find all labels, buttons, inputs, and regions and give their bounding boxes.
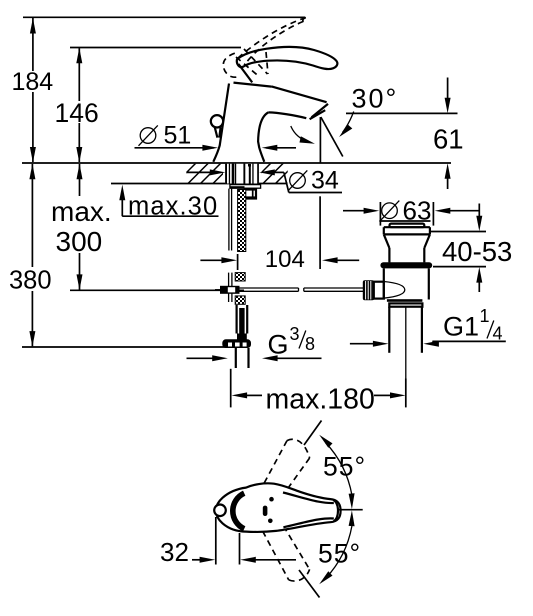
inner top line [283, 493, 334, 504]
wire: deck bottom line [111, 183, 288, 185]
pop-up horizontal rod [240, 288, 365, 291]
svg-text:8: 8 [305, 334, 315, 354]
dimension Ø51 [135, 122, 297, 151]
braided supply hose [238, 190, 246, 252]
dimension 30deg [291, 84, 399, 163]
dimension 146 [55, 48, 99, 163]
svg-text:32: 32 [160, 537, 189, 567]
svg-text:184: 184 [12, 68, 54, 96]
wire: max300 bottom line [70, 289, 244, 291]
aerator bar [310, 110, 326, 119]
spout vertical construction line [319, 117, 321, 163]
dimension 184 [12, 18, 54, 163]
svg-text:55°: 55° [318, 538, 361, 568]
svg-text:34: 34 [311, 167, 339, 195]
svg-text:61: 61 [433, 124, 464, 155]
30 deg slanted construction line [321, 117, 343, 157]
svg-text:3: 3 [290, 324, 300, 344]
side port [374, 282, 384, 299]
wire: spout height line (61 top) [346, 112, 458, 114]
spout end face [312, 104, 329, 117]
dimension max.180 [231, 369, 406, 416]
svg-text:G: G [268, 330, 289, 360]
G3/8 nipple [236, 348, 249, 368]
svg-text:30°: 30° [352, 84, 399, 114]
dimension G1 1/4 [350, 306, 506, 347]
faucet body outline [213, 83, 328, 162]
braided hose lower pieces [235, 273, 245, 281]
handle plan outer outline [216, 483, 341, 532]
valve flange [384, 227, 430, 248]
dimension 104 [200, 196, 359, 273]
104 left tick [237, 254, 239, 270]
black dots [269, 497, 274, 502]
supply hose bottom tube [237, 305, 248, 340]
valve cap plate [390, 224, 425, 228]
104 right extension line [319, 196, 321, 269]
upper 55 arc arrow [319, 435, 354, 510]
pop-up lever cross fitting [215, 286, 240, 294]
handle centerline [337, 509, 363, 511]
inner bottom line [283, 518, 333, 527]
svg-text:104: 104 [265, 246, 305, 273]
svg-text:300: 300 [56, 226, 103, 257]
wire: 146 top extension line [70, 47, 241, 49]
right arc arrow [343, 112, 354, 133]
svg-text:55°: 55° [323, 452, 366, 482]
valve bottom joint [387, 299, 423, 302]
mounting shank [225, 164, 259, 184]
knurled adjuster knob [363, 280, 374, 300]
valve upper tube [389, 248, 424, 262]
body top edge [234, 83, 272, 87]
valve body [384, 268, 429, 299]
dimension Ø34 [186, 167, 342, 195]
dimension 40-53 [429, 204, 512, 293]
svg-text:max.: max. [51, 196, 112, 227]
dimension max.300 [51, 164, 112, 290]
left arc arrow [291, 126, 309, 142]
svg-text:146: 146 [55, 98, 99, 128]
svg-text:380: 380 [9, 266, 52, 294]
55deg leg line upper [304, 421, 322, 446]
logo mark [263, 506, 268, 516]
55deg leg line lower [299, 570, 320, 598]
deck hatching [175, 163, 309, 184]
dimension Ø63 [343, 196, 479, 226]
pop-up knob on body [211, 115, 223, 138]
wire: deck top surface line [22, 162, 451, 164]
pop-up rod lower [229, 273, 232, 302]
svg-text:1: 1 [480, 306, 490, 326]
dimension G3/8 [187, 324, 322, 361]
pop-up rod tube (thin) [229, 189, 232, 251]
G3/8 nut [222, 339, 251, 348]
wire: 380 bottom line [22, 346, 230, 348]
wire: top extension line (184 top) [23, 16, 305, 18]
lever handle (solid) [237, 47, 338, 82]
svg-text:4: 4 [493, 324, 503, 344]
lever raised (dashed) [223, 18, 306, 78]
thick crescent pivot [233, 493, 244, 529]
svg-text:51: 51 [164, 122, 192, 150]
dimension max.30 [119, 185, 218, 221]
shank washer and fitting [230, 185, 261, 199]
svg-text:max.180: max.180 [266, 384, 375, 416]
svg-text:40-53: 40-53 [442, 236, 512, 267]
pop-up knob plan [214, 505, 226, 517]
tailpiece [389, 307, 422, 379]
dashed handle up position [263, 439, 310, 494]
dimension 380 [9, 164, 52, 347]
spout top thick edge [272, 86, 327, 102]
dimension 61 [433, 78, 464, 190]
svg-text:G1: G1 [443, 312, 479, 342]
dashed handle down position [263, 526, 310, 581]
lower 55 arc arrow [319, 510, 354, 584]
O-ring [380, 262, 432, 268]
dimension 32 [160, 517, 296, 567]
inner tip cap line [334, 500, 339, 522]
